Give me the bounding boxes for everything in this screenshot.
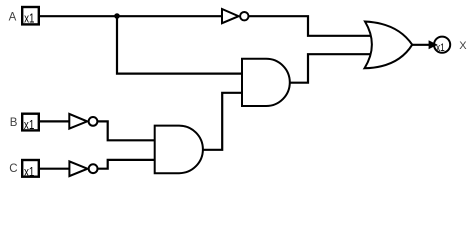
svg-text:B: B [10,117,18,129]
wire inverter U6 output to AND U3 bottom input [98,160,156,169]
inverter U6 (NOT gate, input C) [69,161,97,176]
input box C [22,160,39,179]
wire branch of A down to AND gate U2 top input [117,16,243,73]
wire OR U4 output to output pin X [412,44,430,46]
wire AND U2 output to OR gate U4 bottom input [290,54,372,82]
svg-text:x1: x1 [24,12,34,26]
input box A [22,7,39,26]
wire A from input box to NOT gate U1 [40,15,223,17]
wire B from input box to inverter U5 [40,120,70,122]
wire C from input box to inverter U6 [40,168,70,170]
node junction on wire A [114,13,120,19]
wire inverter U5 output to AND U3 top input [97,121,155,140]
input box B [22,114,39,132]
and-gate U2 (middle) [242,59,290,106]
svg-text:A: A [9,12,17,24]
wire NOT U1 output to OR gate U4 top input [248,16,371,36]
or-gate U4 [365,22,413,69]
svg-text:X: X [459,40,467,52]
svg-text:x1: x1 [436,42,445,54]
output pin circle X [434,37,450,53]
output pin arrowhead [429,40,438,49]
inverter U5 (NOT gate, input B) [69,114,97,129]
svg-text:C: C [9,163,17,175]
and-gate U3 (lower) [155,126,203,174]
wire AND U3 output up to AND U2 bottom input [203,93,244,150]
inverter U1 (NOT gate, top) [222,9,249,23]
svg-text:x1: x1 [24,118,34,132]
svg-text:x1: x1 [24,165,34,179]
